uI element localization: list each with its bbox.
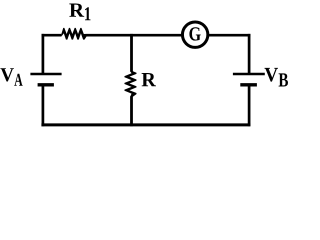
label VA (0, 68, 22, 85)
wire: top rail left segment (42, 34, 62, 37)
battery VA positive plate (long) (30, 73, 61, 75)
label R1 (69, 4, 90, 21)
label VB (264, 68, 287, 87)
wire: top rail right segment (87, 34, 251, 37)
wire: left vertical lower (42, 85, 45, 126)
battery VB positive plate (long) (233, 73, 265, 75)
wire: right vertical upper (248, 34, 251, 74)
label R (142, 73, 156, 86)
wire: middle vertical upper (130, 34, 133, 72)
battery VA negative plate (short thick) (38, 83, 54, 86)
wire: middle vertical lower (130, 96, 133, 126)
wire: bottom rail (41, 123, 250, 126)
galvanometer label G (189, 27, 200, 40)
resistor R1 (zigzag on top rail) (61, 28, 86, 40)
resistor R (vertical zigzag) (124, 71, 136, 96)
galvanometer U1 (circle) (182, 22, 207, 47)
wire: right vertical lower (248, 85, 251, 126)
wire: left vertical upper (42, 34, 45, 74)
battery VB negative plate (short thick) (240, 83, 257, 86)
